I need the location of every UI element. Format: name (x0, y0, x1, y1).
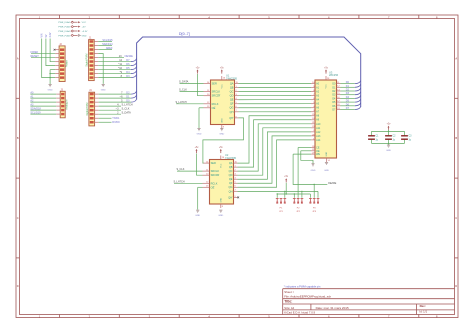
bus entry (131, 66, 137, 69)
wire D7 (98, 61, 131, 63)
svg-text:B: B (455, 136, 457, 140)
svg-text:A13: A13 (316, 135, 321, 138)
wire U2 QE to A12 (238, 132, 312, 179)
wire U2 QG to A14 (238, 140, 312, 187)
bus entry (355, 95, 361, 98)
svg-text:QH: QH (230, 110, 234, 114)
svg-text:AREF: AREF (106, 47, 113, 50)
svg-text:SRCLR: SRCLR (212, 94, 221, 98)
zone reference ticks and labels (58, 15, 60, 19)
wire VIN (42, 39, 55, 78)
svg-text:GND: GND (386, 150, 391, 152)
svg-text:VCC: VCC (221, 84, 223, 89)
svg-text:GND: GND (101, 90, 106, 92)
svg-text:QA: QA (229, 161, 233, 165)
svg-text:A: A (455, 56, 457, 60)
wire OE to GND (199, 107, 204, 109)
svg-text:File: ArduinoEEPROMProg.kicad_: File: ArduinoEEPROMProg.kicad_sch (284, 294, 331, 298)
wire D2 (341, 90, 355, 92)
svg-text:OE: OE (212, 106, 216, 110)
svg-text:QH: QH (229, 189, 233, 193)
bus entry (131, 91, 137, 94)
wire D6 (341, 105, 355, 107)
svg-text:SDA/D14: SDA/D14 (102, 43, 113, 46)
power +5V (388, 127, 390, 130)
bus entry (355, 107, 361, 110)
svg-text:SDA/D18: SDA/D18 (30, 107, 41, 110)
wire U1 QB to A1 (239, 87, 312, 89)
svg-text:S_CLK: S_CLK (177, 168, 185, 171)
svg-text:A11: A11 (316, 127, 321, 130)
bus entry (131, 62, 137, 65)
wire D3 (341, 94, 355, 96)
wire TX/D1 (99, 117, 112, 119)
svg-text:A: A (17, 56, 19, 60)
wire D6 (98, 65, 131, 67)
svg-text:QG: QG (230, 106, 234, 110)
bus entry (131, 95, 137, 98)
svg-text:PWR_FLAG: PWR_FLAG (58, 26, 70, 29)
no-connect (237, 197, 239, 199)
svg-text:SRCLR: SRCLR (211, 173, 220, 177)
svg-text:Date: mar. 31 mars 2015: Date: mar. 31 mars 2015 (316, 306, 349, 310)
svg-text:GND: GND (48, 90, 53, 92)
wire U2 QF to A13 (238, 136, 312, 183)
svg-text:SRCLK: SRCLK (211, 169, 220, 173)
wire D4 (341, 97, 355, 99)
wire U2 QB to A9 (238, 120, 312, 167)
wire RX/D0 (99, 121, 112, 123)
svg-text:QD: QD (230, 94, 234, 98)
wire GND pins 6,7 (50, 69, 55, 71)
svg-text:SRCLK: SRCLK (212, 90, 221, 94)
wire U2 QD to A11 (238, 128, 312, 175)
svg-text:QG: QG (229, 185, 233, 189)
wire U2 OE to GND (198, 186, 203, 188)
wire U1 QA to A0 (239, 83, 312, 85)
svg-text:QD: QD (229, 173, 233, 177)
svg-text:C: C (455, 216, 457, 220)
svg-text:TX/D1: TX/D1 (112, 117, 120, 120)
ground (325, 161, 328, 163)
svg-text:QC: QC (229, 169, 233, 173)
wire U1 QC to A2 (239, 91, 312, 93)
svg-text:A14: A14 (316, 139, 321, 142)
svg-text:QB: QB (230, 86, 234, 90)
wire A3 (30, 105, 56, 107)
bus entry (355, 88, 361, 91)
wire U1 QG to A6 (239, 107, 312, 109)
svg-text:VCC: VCC (220, 163, 222, 168)
ground (220, 128, 223, 130)
svg-text:VIN: VIN (41, 33, 44, 37)
svg-text:S_DATA: S_DATA (122, 112, 132, 115)
wire U2 QA to A8 (238, 116, 312, 163)
wire U1 QF to A5 (239, 103, 312, 105)
jumper JP2 (293, 197, 296, 199)
bus entry (131, 99, 137, 102)
svg-text:VCC: VCC (326, 84, 328, 89)
svg-text:QE: QE (230, 98, 234, 102)
svg-text:QF: QF (230, 102, 234, 106)
wire D5 (98, 69, 131, 71)
svg-text:PWR_FLAG: PWR_FLAG (58, 34, 70, 37)
wire S_LATCH (99, 105, 121, 107)
svg-text:KiCad E.D.A. kicad 7.0.9: KiCad E.D.A. kicad 7.0.9 (284, 310, 315, 314)
bus entry (131, 58, 137, 61)
wire jumper feed (276, 194, 278, 198)
svg-text:QB: QB (229, 165, 233, 169)
IC U2 74HC595 shift register (210, 160, 234, 205)
wire S_DATA (99, 113, 121, 115)
bus entry (355, 84, 361, 87)
wire (98, 45, 112, 47)
wire S_CLK (177, 170, 203, 172)
wire 13 OE/WE (98, 57, 124, 59)
svg-text:S_CLK: S_CLK (122, 108, 130, 111)
wire S_CLK (99, 109, 121, 111)
label OE/WE (314, 184, 327, 186)
ground (102, 84, 105, 86)
wire to GND (388, 143, 390, 144)
wire D1 (99, 97, 131, 99)
svg-text:PWR_FLAG: PWR_FLAG (58, 30, 70, 33)
svg-text:QH': QH' (229, 116, 234, 120)
svg-text:+3.3V: +3.3V (82, 31, 88, 33)
title block (282, 289, 284, 315)
svg-text:Digital/PWM: Digital/PWM (86, 102, 89, 115)
svg-text:Analog In: Analog In (65, 99, 68, 110)
svg-text:D[0..7]: D[0..7] (179, 32, 190, 36)
svg-text:S_LATCH: S_LATCH (122, 104, 133, 107)
svg-text:QF: QF (229, 181, 233, 185)
svg-text:74HC595: 74HC595 (225, 156, 237, 160)
wire RESET (31, 57, 55, 59)
wire jumper feed (309, 194, 311, 198)
svg-text:*10: *10 (118, 67, 122, 70)
wire D0 (341, 83, 355, 85)
ground (311, 163, 314, 165)
svg-text:SER: SER (212, 82, 217, 86)
svg-text:RCLK: RCLK (211, 181, 218, 185)
wire GND drop (98, 54, 103, 84)
svg-text:GND: GND (219, 134, 224, 136)
wire D4 (98, 73, 131, 75)
svg-text:+5V: +5V (82, 27, 86, 29)
wire U1 QD to A3 (239, 95, 312, 97)
svg-text:PWR_FLAG: PWR_FLAG (58, 21, 70, 24)
svg-text:Id: 1/1: Id: 1/1 (419, 310, 427, 314)
wire A1 (30, 97, 56, 99)
wire SCL/D19 (30, 113, 56, 115)
no-connect (54, 49, 56, 51)
capacitor C1 (371, 131, 373, 135)
wire D7 (341, 109, 355, 111)
svg-text:GND: GND (197, 134, 202, 136)
bus entry (131, 74, 137, 77)
svg-text:* indicates a PWM-capable pin: * indicates a PWM-capable pin (284, 285, 321, 289)
svg-text:IOREF: IOREF (31, 51, 39, 54)
wire D2 (99, 93, 131, 95)
svg-text:D: D (17, 284, 19, 288)
wire U2 QC to A10 (238, 124, 312, 171)
svg-text:GND: GND (218, 215, 223, 217)
svg-text:S_LATCH: S_LATCH (174, 180, 185, 183)
svg-text:74HC595: 74HC595 (226, 76, 238, 80)
bus D[0..7] (137, 37, 361, 107)
wire jumper feed (317, 191, 319, 197)
svg-text:RESET: RESET (31, 55, 40, 58)
wire S_CLK (180, 91, 204, 93)
wire D0 (99, 101, 131, 103)
wire U1 QE to A4 (239, 99, 312, 101)
svg-text:WE: WE (316, 153, 320, 156)
wire SDA/D18 (30, 109, 56, 111)
wire OE to GND (301, 150, 311, 152)
capacitor C2 (388, 131, 390, 135)
svg-text:QC: QC (230, 90, 234, 94)
wire D5 (341, 101, 355, 103)
svg-text:D: D (455, 284, 457, 288)
svg-text:OE: OE (211, 185, 215, 189)
bus entry (131, 70, 137, 73)
svg-text:GND: GND (324, 170, 329, 172)
power +5V (221, 71, 223, 74)
wire +5V to SRCLR (198, 74, 204, 96)
ground (219, 209, 222, 211)
svg-text:SER: SER (211, 161, 216, 165)
svg-text:RCLK: RCLK (212, 102, 219, 106)
power +5V (220, 150, 222, 153)
svg-text:SCL/D15: SCL/D15 (102, 39, 113, 42)
IC U3 28C256 EEPROM (315, 80, 337, 158)
connector J1 Digital/PWM header (upper) (89, 40, 95, 81)
power +5V (196, 150, 198, 153)
wire QH1 to U2 SER daisy chain (203, 118, 244, 163)
wire U2 QH to jumpers (238, 190, 319, 192)
svg-text:Rev:: Rev: (420, 304, 426, 308)
power +5V (325, 71, 327, 74)
svg-text:B: B (17, 136, 19, 140)
svg-text:A10: A10 (316, 123, 321, 126)
svg-text:VCC: VCC (82, 22, 87, 24)
power +5V (197, 71, 199, 74)
bus entry (355, 92, 361, 95)
svg-text:GND: GND (311, 170, 316, 172)
wire +5V to SRCLR (197, 154, 203, 176)
svg-text:SCL/D19: SCL/D19 (30, 111, 41, 114)
wire jumper feed (301, 191, 303, 197)
svg-text:OE/WE: OE/WE (125, 55, 134, 58)
wire A2 (30, 101, 56, 103)
svg-text:QE: QE (229, 177, 233, 181)
bus entry (355, 81, 361, 84)
wire S_LATCH (176, 103, 204, 105)
ground (49, 84, 52, 86)
capacitor C3 (404, 131, 406, 135)
wire 3.3V riser (50, 39, 55, 62)
ground (387, 144, 390, 146)
svg-text:OE/WE: OE/WE (328, 182, 337, 185)
wire jumper feed (293, 194, 295, 198)
power +5V (285, 180, 287, 183)
svg-text:S_DATA: S_DATA (179, 81, 189, 84)
svg-text:Power: Power (65, 60, 68, 67)
svg-text:GND: GND (82, 35, 87, 37)
jumper JP3 (309, 197, 312, 199)
ground (197, 128, 200, 130)
IC U1 74HC595 shift register (211, 80, 235, 125)
wire D3 (98, 77, 131, 79)
wire (98, 41, 112, 43)
svg-text:A12: A12 (316, 131, 321, 134)
svg-text:QH': QH' (228, 195, 233, 199)
connector J2 Power header (59, 46, 65, 82)
wire U1 QH to A7 (239, 111, 312, 113)
svg-text:GND: GND (220, 197, 222, 202)
svg-text:5V: 5V (45, 34, 48, 37)
wire (98, 49, 112, 51)
wire CE (298, 147, 311, 149)
wire A0 (30, 93, 56, 95)
wire S_DATA (180, 83, 204, 85)
svg-text:Title:: Title: (284, 300, 292, 304)
bus entry (355, 103, 361, 106)
svg-text:S_CLK: S_CLK (179, 89, 187, 92)
svg-text:QA: QA (230, 82, 234, 86)
wire cap rail top (372, 130, 405, 132)
wire IOREF (31, 53, 55, 55)
svg-text:RX/D0: RX/D0 (112, 121, 120, 124)
wire S_LATCH (174, 182, 203, 184)
bus entry (355, 99, 361, 102)
connector J4 Digital/PWM header (lower) (89, 92, 95, 126)
svg-text:S_LATCH: S_LATCH (176, 101, 187, 104)
svg-text:*11: *11 (118, 63, 122, 66)
wire WE (293, 153, 311, 155)
svg-text:Size: A4: Size: A4 (284, 306, 294, 310)
connector J3 Analog In header (60, 91, 65, 118)
wire 5V riser (46, 39, 55, 66)
svg-text:Digital/PWM: Digital/PWM (86, 54, 89, 67)
jumper JP1 (276, 197, 279, 199)
svg-text:GND: GND (195, 215, 200, 217)
svg-text:28C256: 28C256 (329, 73, 339, 77)
svg-text:GND: GND (326, 151, 328, 156)
svg-text:GND: GND (221, 118, 223, 123)
svg-text:C: C (17, 216, 19, 220)
ground (196, 209, 199, 211)
wire cap rail bottom (372, 142, 405, 144)
wire D1 (341, 86, 355, 88)
svg-text:3.3V: 3.3V (49, 32, 52, 37)
wire jumper feed (284, 191, 286, 197)
